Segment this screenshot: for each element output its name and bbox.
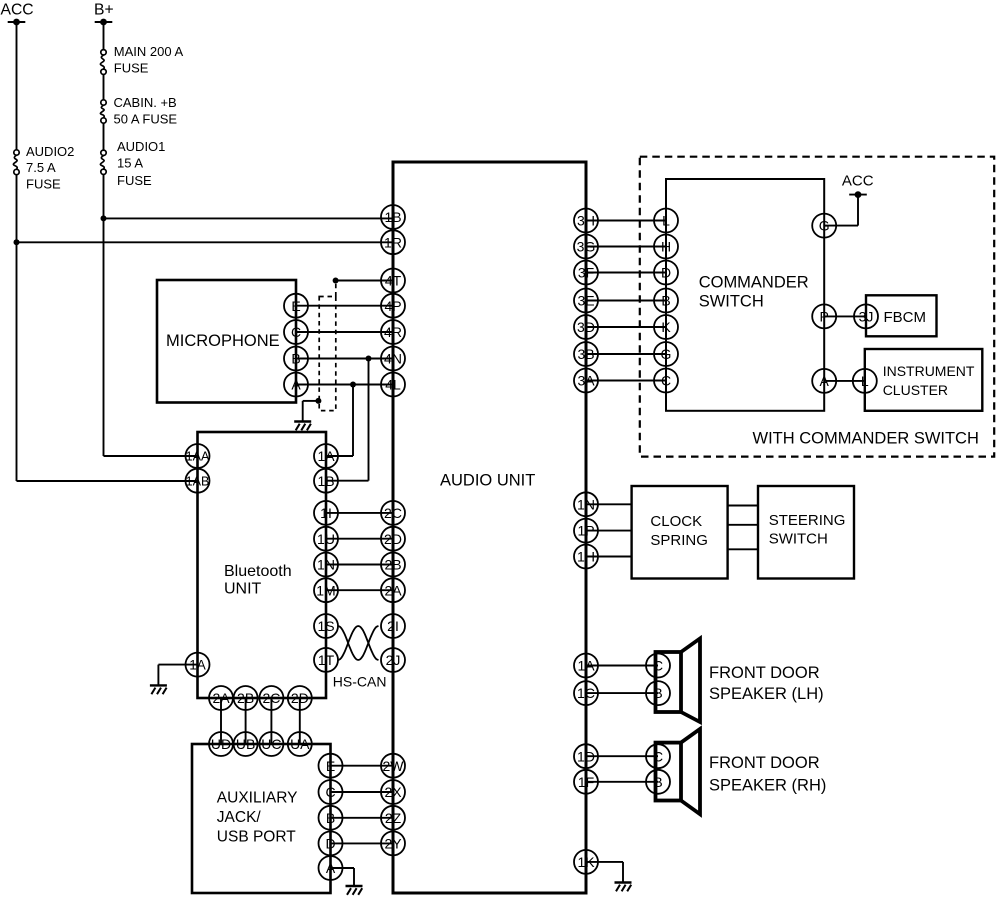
svg-text:1S: 1S: [317, 618, 334, 634]
svg-text:B: B: [653, 774, 662, 790]
svg-text:A: A: [820, 373, 830, 389]
svg-text:SPEAKER (LH): SPEAKER (LH): [709, 685, 824, 703]
svg-text:2B: 2B: [237, 690, 254, 706]
svg-text:P: P: [820, 309, 829, 325]
svg-text:FUSE: FUSE: [117, 173, 152, 188]
svg-text:1B: 1B: [384, 209, 401, 225]
svg-text:1A: 1A: [317, 448, 335, 464]
svg-text:AUDIO1: AUDIO1: [117, 139, 165, 154]
svg-text:SWITCH: SWITCH: [769, 530, 828, 547]
svg-text:JACK/: JACK/: [217, 809, 262, 826]
svg-text:3H: 3H: [577, 213, 595, 229]
svg-text:2I: 2I: [387, 618, 399, 634]
svg-text:E: E: [291, 298, 300, 314]
svg-text:A: A: [291, 377, 301, 393]
svg-text:2B: 2B: [384, 557, 401, 573]
svg-text:4N: 4N: [384, 351, 402, 367]
svg-text:2X: 2X: [384, 784, 402, 800]
svg-text:1N: 1N: [317, 557, 335, 573]
svg-text:AUDIO2: AUDIO2: [26, 144, 74, 159]
svg-text:1D: 1D: [577, 748, 595, 764]
svg-text:MICROPHONE: MICROPHONE: [166, 332, 280, 350]
svg-text:SPRING: SPRING: [650, 532, 708, 549]
svg-text:STEERING: STEERING: [769, 512, 846, 529]
svg-text:3F: 3F: [578, 265, 594, 281]
svg-text:MAIN 200 A: MAIN 200 A: [114, 44, 184, 59]
svg-text:3D: 3D: [577, 319, 595, 335]
svg-text:1M: 1M: [316, 582, 335, 598]
svg-text:SPEAKER (RH): SPEAKER (RH): [709, 777, 826, 795]
svg-text:USB PORT: USB PORT: [217, 828, 296, 845]
svg-text:COMMANDER: COMMANDER: [699, 274, 809, 292]
svg-text:3J: 3J: [859, 309, 874, 325]
svg-text:C: C: [653, 748, 663, 764]
svg-text:2A: 2A: [212, 690, 230, 706]
svg-text:L: L: [662, 213, 670, 229]
svg-text:FRONT DOOR: FRONT DOOR: [709, 754, 820, 772]
svg-text:3B: 3B: [577, 346, 594, 362]
svg-text:FUSE: FUSE: [26, 177, 61, 192]
svg-text:1I: 1I: [320, 505, 332, 521]
svg-text:UNIT: UNIT: [224, 580, 262, 597]
svg-text:7.5 A: 7.5 A: [26, 160, 56, 175]
svg-text:3E: 3E: [577, 293, 594, 309]
svg-text:4R: 4R: [384, 324, 402, 340]
svg-text:2C: 2C: [384, 505, 402, 521]
svg-text:50 A FUSE: 50 A FUSE: [114, 112, 178, 127]
svg-text:2Y: 2Y: [384, 836, 402, 852]
svg-text:D: D: [661, 265, 671, 281]
svg-text:Bluetooth: Bluetooth: [224, 563, 292, 580]
svg-text:1T: 1T: [318, 652, 335, 668]
svg-text:AUDIO UNIT: AUDIO UNIT: [440, 471, 535, 489]
svg-text:AUXILIARY: AUXILIARY: [217, 789, 298, 806]
svg-text:FUSE: FUSE: [114, 61, 149, 76]
svg-text:B: B: [291, 351, 300, 367]
svg-text:UD: UD: [211, 736, 231, 752]
svg-text:B+: B+: [94, 2, 114, 19]
svg-text:FBCM: FBCM: [884, 309, 927, 326]
svg-text:CLOCK: CLOCK: [650, 513, 702, 530]
svg-text:C: C: [653, 658, 663, 674]
svg-text:1N: 1N: [577, 496, 595, 512]
svg-text:INSTRUMENT: INSTRUMENT: [883, 363, 975, 379]
svg-text:C: C: [661, 373, 671, 389]
svg-text:4P: 4P: [384, 298, 401, 314]
svg-text:B: B: [661, 293, 670, 309]
svg-text:H: H: [661, 239, 671, 255]
svg-text:4T: 4T: [385, 273, 402, 289]
svg-text:HS-CAN: HS-CAN: [333, 674, 387, 690]
svg-text:2C: 2C: [262, 690, 280, 706]
svg-text:1F: 1F: [578, 774, 594, 790]
svg-text:2Z: 2Z: [385, 810, 402, 826]
svg-text:A: A: [326, 860, 336, 876]
svg-text:UB: UB: [236, 736, 255, 752]
svg-text:G: G: [819, 218, 830, 234]
svg-text:ACC: ACC: [1, 2, 34, 19]
svg-text:C: C: [325, 784, 335, 800]
svg-text:E: E: [326, 758, 335, 774]
svg-text:1R: 1R: [384, 234, 402, 250]
svg-text:UC: UC: [261, 736, 281, 752]
svg-text:2J: 2J: [386, 652, 401, 668]
svg-text:3A: 3A: [577, 373, 595, 389]
svg-text:2D: 2D: [384, 531, 402, 547]
svg-text:1H: 1H: [577, 549, 595, 565]
svg-text:1AA: 1AA: [186, 450, 210, 464]
svg-text:D: D: [325, 836, 335, 852]
svg-text:1A: 1A: [577, 658, 595, 674]
svg-text:1P: 1P: [577, 523, 594, 539]
svg-text:G: G: [661, 346, 672, 362]
svg-text:K: K: [661, 319, 671, 335]
svg-text:L: L: [861, 373, 869, 389]
svg-text:2W: 2W: [383, 758, 405, 774]
svg-text:1C: 1C: [577, 685, 595, 701]
svg-text:UA: UA: [290, 736, 310, 752]
svg-text:FRONT DOOR: FRONT DOOR: [709, 664, 820, 682]
svg-text:B: B: [653, 685, 662, 701]
svg-text:1AB: 1AB: [186, 474, 210, 488]
svg-text:2A: 2A: [384, 582, 402, 598]
svg-text:C: C: [291, 324, 301, 340]
svg-text:CLUSTER: CLUSTER: [883, 382, 948, 398]
svg-text:4L: 4L: [385, 377, 401, 393]
svg-text:1B: 1B: [317, 473, 334, 489]
svg-text:WITH COMMANDER SWITCH: WITH COMMANDER SWITCH: [753, 430, 979, 448]
svg-text:ACC: ACC: [842, 173, 874, 190]
svg-text:15 A: 15 A: [117, 156, 143, 171]
svg-text:2D: 2D: [291, 690, 309, 706]
svg-text:1U: 1U: [317, 531, 335, 547]
svg-text:1A: 1A: [189, 658, 206, 673]
svg-text:CABIN. +B: CABIN. +B: [114, 95, 177, 110]
svg-text:3G: 3G: [577, 239, 596, 255]
svg-text:B: B: [326, 810, 335, 826]
svg-text:SWITCH: SWITCH: [699, 293, 764, 311]
svg-text:1K: 1K: [577, 854, 595, 870]
